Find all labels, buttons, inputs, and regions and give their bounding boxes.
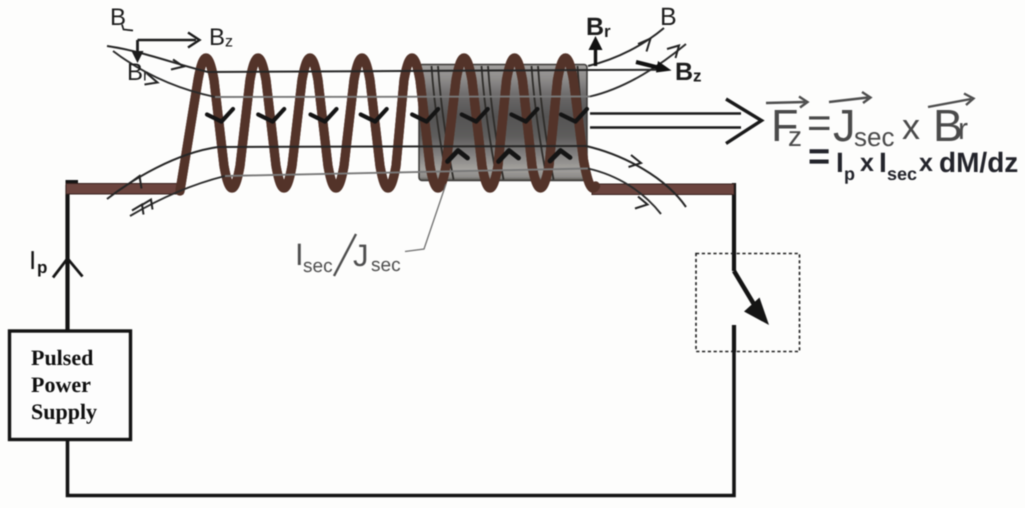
- svg-text:=: =: [808, 136, 830, 178]
- current direction chevrons (up) on armature: [448, 151, 571, 162]
- field line 3 (black): left curve, straight, right curve down: [107, 146, 586, 199]
- svg-text:B: B: [127, 59, 143, 86]
- Fz force open arrow: [590, 99, 762, 144]
- svg-text:B: B: [586, 13, 604, 41]
- svg-text:Power: Power: [31, 372, 91, 397]
- on line1 left: [171, 60, 184, 70]
- maroon coil lead right: [592, 184, 734, 195]
- Bz arrow top-left: [138, 39, 197, 42]
- svg-text:p: p: [37, 258, 47, 277]
- svg-text:x: x: [860, 149, 874, 177]
- coil (primary winding): [180, 58, 596, 191]
- svg-text:z: z: [225, 34, 233, 51]
- wire left vertical (supply to coil lead): [65, 185, 69, 331]
- equation line 2: = Ip x Isec x dM/dz: [808, 136, 1018, 184]
- secondary winding turns on armature: [432, 66, 588, 180]
- Pulsed Power Supply box: [10, 331, 131, 440]
- on line2 right: [667, 46, 679, 59]
- on line4 left (double): [132, 205, 144, 215]
- svg-text:B: B: [209, 24, 225, 51]
- svg-text:r: r: [143, 68, 149, 85]
- Br arrow top-right (up): [594, 44, 597, 66]
- svg-text:dM/dz: dM/dz: [939, 147, 1018, 178]
- leader line to armature: [405, 184, 446, 252]
- svg-text:z: z: [788, 121, 802, 152]
- on line3 left: [129, 176, 142, 189]
- armature (secondary cylinder): [419, 65, 587, 181]
- field arrowheads (open chevrons): [129, 39, 680, 215]
- svg-text:I: I: [29, 245, 36, 275]
- switch lower contact wire: [732, 325, 736, 352]
- svg-text:I: I: [836, 147, 844, 178]
- maroon coil lead left: [66, 184, 183, 195]
- svg-text:B: B: [675, 58, 693, 86]
- svg-text:x: x: [919, 149, 933, 177]
- field line 1 (top black): left curve, straight, right curve to B: [107, 46, 668, 72]
- wire bottom loop: [68, 325, 735, 496]
- svg-text:r: r: [958, 113, 968, 146]
- svg-text:z: z: [693, 67, 702, 86]
- svg-text:I: I: [879, 147, 887, 178]
- Isec/Jsec pointer label: [295, 237, 401, 277]
- switch blade with arrow: [734, 271, 755, 306]
- field line 4 (gray): left curve, straight, right curve down: [130, 176, 225, 216]
- Bz bold arrow top-right: [636, 62, 660, 68]
- svg-text:J: J: [353, 238, 369, 273]
- vector arrows over line 1: [766, 92, 974, 108]
- svg-text:sec: sec: [854, 122, 894, 152]
- on line1 right (to B): [638, 39, 651, 52]
- wire right vertical (bar to switch): [732, 183, 736, 271]
- Br arrow top-left (down): [136, 40, 139, 56]
- current direction chevrons (down) on coil: [207, 109, 587, 122]
- on line3 right: [629, 155, 642, 167]
- svg-text:J: J: [833, 100, 856, 151]
- svg-text:sec: sec: [887, 164, 917, 184]
- svg-text:Pulsed: Pulsed: [31, 345, 93, 370]
- on line2 left: [145, 74, 158, 85]
- corner tick below B: [122, 25, 133, 31]
- svg-text:x: x: [902, 106, 920, 147]
- field line 2 (gray): left curve, straight, right curve past Bz: [113, 51, 215, 97]
- equation line 1: Fz = Jsec x Br: [771, 99, 968, 152]
- switch dashed box: [696, 254, 800, 352]
- svg-text:sec: sec: [371, 255, 401, 276]
- svg-text:p: p: [844, 164, 855, 184]
- svg-text:sec: sec: [303, 256, 333, 277]
- svg-text:B: B: [660, 3, 677, 31]
- svg-text:Supply: Supply: [31, 399, 97, 424]
- on line4 right: [635, 197, 648, 209]
- Ip arrow on wire: [53, 259, 83, 278]
- svg-text:r: r: [604, 22, 611, 41]
